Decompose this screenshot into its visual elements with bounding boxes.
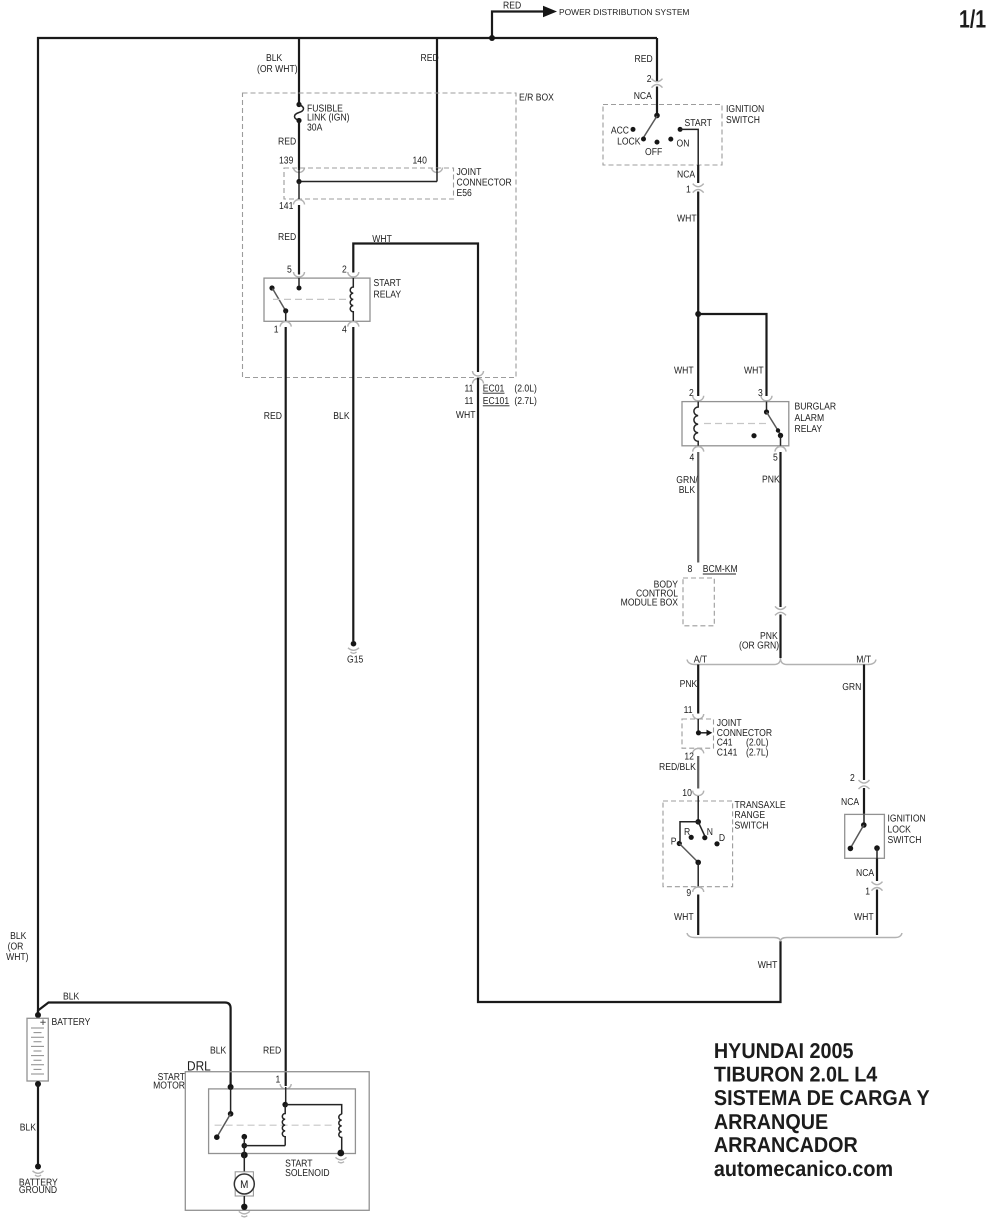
svg-text:8: 8 <box>688 564 693 575</box>
wire: WHT start relay pin 2 to EC01 <box>353 244 478 373</box>
svg-text:SWITCH: SWITCH <box>735 820 769 831</box>
svg-text:1: 1 <box>865 887 870 898</box>
svg-text:11: 11 <box>684 705 693 716</box>
wire contact to motor <box>243 1137 245 1173</box>
svg-text:BLK: BLK <box>266 53 283 64</box>
svg-text:RED/BLK: RED/BLK <box>659 762 696 773</box>
svg-text:RED: RED <box>263 1045 281 1056</box>
svg-text:(2.7L): (2.7L) <box>514 396 536 407</box>
svg-text:(OR GRN): (OR GRN) <box>739 641 779 652</box>
relay coil <box>694 402 698 446</box>
svg-text:ARRANQUE: ARRANQUE <box>714 1110 828 1134</box>
pin 1 stub <box>285 311 287 321</box>
wire: WHT EC01 down, across, up to merge bracket <box>478 378 781 1002</box>
output contact <box>874 845 880 851</box>
pin 9 connector cup <box>693 887 704 892</box>
input wire to common <box>697 796 699 822</box>
svg-text:WHT: WHT <box>456 410 476 421</box>
svg-text:N: N <box>707 827 713 838</box>
contact D <box>714 841 719 846</box>
svg-text:NCA: NCA <box>841 797 859 808</box>
svg-text:RELAY: RELAY <box>795 424 823 435</box>
battery <box>27 1012 48 1087</box>
connector EC01/EC101 at E/R box boundary <box>456 371 537 421</box>
transaxle range switch <box>663 796 733 887</box>
switch fixed contact <box>269 285 274 290</box>
svg-text:GRN: GRN <box>842 682 861 693</box>
svg-text:SWITCH: SWITCH <box>888 835 922 846</box>
svg-text:MODULE BOX: MODULE BOX <box>621 598 679 609</box>
svg-text:WHT): WHT) <box>6 952 28 963</box>
wire below ignition lock switch <box>876 858 878 881</box>
pin 4 connector cup <box>348 322 359 327</box>
svg-text:NCA: NCA <box>856 868 874 879</box>
svg-text:GROUND: GROUND <box>19 1185 57 1196</box>
wire: branch to burglar relay pin 3 <box>698 314 766 396</box>
svg-text:CONNECTOR: CONNECTOR <box>457 177 512 188</box>
coil return to contact <box>244 1145 285 1147</box>
top link to hold-in coil <box>285 1105 342 1115</box>
wire below ignition switch <box>697 165 699 183</box>
outer box <box>185 1072 369 1211</box>
wire: RED/BLK C41 pin12 to transaxle pin 10 <box>697 756 699 789</box>
svg-text:E/R BOX: E/R BOX <box>519 92 554 103</box>
split bracket A/T / M/T <box>687 658 876 665</box>
pin 5 connector cup <box>775 447 786 452</box>
wire: BLK start relay pin4 down to G15 <box>352 327 354 641</box>
svg-text:automecanico.com: automecanico.com <box>714 1157 893 1181</box>
pull-in coil <box>282 1105 285 1146</box>
svg-text:E56: E56 <box>457 188 473 199</box>
E/R BOX dashed enclosure <box>243 93 517 378</box>
plus mark <box>40 1020 45 1026</box>
svg-text:WHT: WHT <box>854 912 874 923</box>
linkage dashed <box>215 1124 336 1126</box>
svg-text:1: 1 <box>276 1075 281 1086</box>
wire: top horizontal bus RED <box>37 37 657 39</box>
dashed box <box>603 105 722 166</box>
dashed box <box>663 801 733 887</box>
switch arm <box>273 289 286 311</box>
connector inline (ignition lock pin 2) <box>859 780 870 789</box>
svg-text:WHT: WHT <box>677 213 697 224</box>
svg-text:9: 9 <box>686 888 691 899</box>
svg-text:BLK: BLK <box>333 411 350 422</box>
wire: RED fusible link to E56 pin 139 <box>298 121 300 171</box>
wire: into ignition lock switch <box>863 788 865 814</box>
connector inline (ignition switch pin 1) <box>693 184 704 193</box>
wire: WHT ignition lock to merge <box>876 890 878 936</box>
dashed box <box>682 719 714 748</box>
wire: PNK A/T branch <box>697 665 699 714</box>
svg-text:(OR WHT): (OR WHT) <box>257 64 298 75</box>
output wire <box>697 862 699 886</box>
svg-text:RED: RED <box>278 137 296 148</box>
svg-text:2: 2 <box>647 74 652 85</box>
svg-text:BLK: BLK <box>679 485 696 496</box>
wire: GRN M/T branch <box>863 665 865 781</box>
svg-text:(2.7L): (2.7L) <box>746 747 768 758</box>
svg-text:1: 1 <box>686 184 691 195</box>
contact OFF <box>655 140 660 145</box>
svg-text:SISTEMA DE CARGA Y: SISTEMA DE CARGA Y <box>714 1086 930 1110</box>
wire: WHT transaxle to merge <box>697 895 699 936</box>
pin 2 connector cup <box>693 396 704 401</box>
svg-text:10: 10 <box>682 788 692 799</box>
node: junction top bus / arrow stub <box>489 35 495 41</box>
svg-text:(OR: (OR <box>8 942 24 953</box>
svg-text:START: START <box>374 278 401 289</box>
contact R <box>689 835 694 840</box>
svg-text:BLK: BLK <box>63 992 80 1003</box>
svg-text:2: 2 <box>850 773 855 784</box>
svg-text:RELAY: RELAY <box>374 289 402 300</box>
svg-text:HYUNDAI 2005: HYUNDAI 2005 <box>714 1039 854 1063</box>
pin 1 connector cup <box>280 1084 291 1089</box>
svg-text:EC101: EC101 <box>483 396 510 407</box>
pin 5 stub <box>780 436 782 446</box>
contact N <box>702 835 707 840</box>
svg-text:WHT: WHT <box>674 365 694 376</box>
branch to P contact <box>680 822 698 841</box>
svg-text:BATTERY: BATTERY <box>52 1017 91 1028</box>
start relay <box>264 264 401 335</box>
svg-text:R: R <box>684 827 690 838</box>
connector inline (ignition switch pin 2) <box>652 79 663 88</box>
pin 3 stub <box>766 402 768 412</box>
node battery positive <box>35 1012 41 1018</box>
wire to switch pivot <box>230 1087 232 1114</box>
internal node and arrow <box>697 719 699 733</box>
relay coil <box>350 278 353 321</box>
ignition lock switch <box>845 814 885 858</box>
svg-text:TIBURON 2.0L L4: TIBURON 2.0L L4 <box>714 1062 877 1086</box>
pin 12 connector cup <box>693 748 704 753</box>
title block <box>714 1039 930 1181</box>
contact LOCK <box>641 137 646 142</box>
svg-text:WHT: WHT <box>372 234 392 245</box>
pin 4 connector cup <box>693 447 704 452</box>
svg-text:4: 4 <box>690 453 695 464</box>
pin 5 connector cup <box>294 272 305 277</box>
contact P <box>677 841 682 846</box>
node battery negative <box>35 1081 41 1087</box>
wire inside E56 pin139 to 141 <box>298 182 300 200</box>
battery plates <box>31 1028 44 1074</box>
joint connector E56 <box>279 155 512 212</box>
connector inline (ignition lock pin 1) <box>872 882 883 891</box>
burglar alarm relay <box>682 396 836 464</box>
svg-text:BLK: BLK <box>10 931 27 942</box>
pin 141 connector cup <box>294 200 305 205</box>
merge bracket <box>687 933 902 942</box>
svg-text:POWER DISTRIBUTION SYSTEM: POWER DISTRIBUTION SYSTEM <box>559 7 689 17</box>
svg-text:P: P <box>671 837 677 848</box>
svg-text:JOINT: JOINT <box>457 167 482 178</box>
internal bus of E56 <box>299 168 437 182</box>
relay box <box>264 278 370 321</box>
rotor arm <box>644 116 658 138</box>
pin 3 connector cup <box>761 396 772 401</box>
wire: PNK (OR GRN) to split <box>779 615 781 659</box>
wire: RED top bus down to ignition switch <box>656 38 658 82</box>
svg-text:ON: ON <box>677 139 690 150</box>
start motor assembly (DRL box) <box>185 1072 369 1217</box>
svg-text:PNK: PNK <box>680 679 698 690</box>
svg-text:2: 2 <box>342 264 347 275</box>
hold-in coil <box>339 1114 342 1153</box>
svg-text:RED: RED <box>635 54 653 65</box>
wire: BLK battery to start motor <box>38 1003 231 1087</box>
svg-text:IGNITION: IGNITION <box>726 104 764 115</box>
ground: start motor <box>241 1204 247 1210</box>
svg-text:139: 139 <box>279 155 294 166</box>
svg-text:SWITCH: SWITCH <box>726 115 760 126</box>
svg-text:(2.0L): (2.0L) <box>514 383 536 394</box>
motor M <box>235 1172 253 1196</box>
svg-text:12: 12 <box>684 752 694 763</box>
contact column nodes <box>242 1134 248 1140</box>
svg-text:PNK: PNK <box>762 474 780 485</box>
pin 11 connector cup <box>693 714 704 719</box>
svg-text:5: 5 <box>287 264 292 275</box>
svg-text:1/1: 1/1 <box>959 5 986 33</box>
svg-text:WHT: WHT <box>744 365 764 376</box>
linkage dashed <box>273 298 348 300</box>
wire: PNK relay pin5 down <box>779 452 781 607</box>
pin 5 stub and node <box>298 278 300 286</box>
wire: RED drop to E56 pin 140 <box>436 38 438 170</box>
contact ON <box>668 137 673 142</box>
inner solenoid box <box>209 1089 356 1154</box>
svg-text:11: 11 <box>465 383 474 394</box>
svg-text:NCA: NCA <box>677 170 695 181</box>
motor switch arm <box>217 1114 231 1137</box>
contact ACC <box>631 127 636 132</box>
svg-text:RED: RED <box>421 53 439 64</box>
node hold-in coil ground <box>337 1150 344 1157</box>
svg-text:BCM-KM: BCM-KM <box>703 564 738 575</box>
wire motor to ground <box>243 1196 245 1207</box>
switch arm P to output <box>679 844 698 863</box>
NO contact <box>751 433 756 438</box>
switch arm <box>851 825 864 848</box>
wire from START contact <box>680 129 698 165</box>
svg-text:ACC: ACC <box>611 125 629 136</box>
contact START <box>678 127 683 132</box>
svg-text:RED: RED <box>264 411 282 422</box>
body control module box (dashed) <box>683 578 714 626</box>
wire: NCA into ignition switch <box>656 87 658 116</box>
svg-text:A/T: A/T <box>694 654 707 665</box>
pin 140 connector cup <box>432 168 443 173</box>
svg-text:G15: G15 <box>347 654 364 665</box>
svg-text:WHT: WHT <box>674 912 694 923</box>
svg-text:SOLENOID: SOLENOID <box>285 1168 329 1179</box>
svg-text:C141: C141 <box>717 747 738 758</box>
ground G15 <box>351 641 357 647</box>
svg-text:1: 1 <box>274 325 279 336</box>
svg-text:140: 140 <box>413 155 428 166</box>
joint connector C41/C141 <box>682 705 772 763</box>
wire: RED start relay pin1 down to start motor <box>285 327 287 1086</box>
connector inline on PNK wire <box>775 606 786 615</box>
pin 1 connector cup <box>280 322 291 327</box>
svg-text:LOCK: LOCK <box>617 137 641 148</box>
svg-text:4: 4 <box>342 325 347 336</box>
branch to N contact <box>698 822 705 836</box>
ignition switch <box>603 105 722 166</box>
wire: BLK battery to ground <box>37 1084 39 1166</box>
svg-text:LOCK: LOCK <box>888 824 912 835</box>
svg-text:30A: 30A <box>307 123 323 134</box>
wire: WHT down to junction <box>697 192 699 397</box>
svg-text:141: 141 <box>279 201 294 212</box>
svg-text:ALARM: ALARM <box>795 413 825 424</box>
svg-text:IGNITION: IGNITION <box>888 814 926 825</box>
wire: GRN/BLK relay pin4 to BCM <box>697 452 699 563</box>
pin 10 connector cup <box>693 791 704 796</box>
pin 2 connector cup <box>348 272 359 277</box>
linkage dashed <box>704 423 769 425</box>
E56 dashed box <box>284 168 454 199</box>
svg-text:11: 11 <box>465 396 474 407</box>
svg-text:M: M <box>240 1179 248 1191</box>
wire: RED E56 pin141 to start relay pin 5 <box>298 205 300 275</box>
svg-text:M/T: M/T <box>856 654 871 665</box>
svg-text:OFF: OFF <box>645 147 662 158</box>
svg-text:RED: RED <box>503 1 521 12</box>
svg-text:5: 5 <box>773 453 778 464</box>
ground: battery ground <box>35 1164 41 1170</box>
fusible link (IGN) 30A <box>296 102 301 107</box>
battery case <box>27 1018 48 1081</box>
svg-text:EC01: EC01 <box>483 383 505 394</box>
svg-text:RED: RED <box>278 232 296 243</box>
node BLK entry <box>228 1084 234 1090</box>
wire: battery feed left vertical BLK(OR WHT) <box>37 37 39 1014</box>
common node <box>654 113 660 119</box>
svg-text:ARRANCADOR: ARRANCADOR <box>714 1133 858 1157</box>
svg-text:MOTOR: MOTOR <box>153 1081 185 1092</box>
node: WHT branch junction <box>695 311 701 317</box>
arrow: to POWER DISTRIBUTION SYSTEM <box>543 6 557 17</box>
svg-text:START: START <box>685 118 712 129</box>
svg-text:WHT: WHT <box>758 960 778 971</box>
svg-text:BURGLAR: BURGLAR <box>795 402 837 413</box>
pin 139 connector cup <box>294 168 305 173</box>
svg-text:D: D <box>719 833 725 844</box>
svg-text:NCA: NCA <box>634 91 652 102</box>
relay box <box>682 402 789 446</box>
wire: BLK drop to fusible link <box>298 38 300 103</box>
svg-text:BLK: BLK <box>210 1045 227 1056</box>
switch arm <box>767 412 781 435</box>
wire: stub to power distribution arrow <box>492 12 543 39</box>
solenoid feed stub <box>285 1087 287 1105</box>
svg-text:BLK: BLK <box>20 1122 37 1133</box>
